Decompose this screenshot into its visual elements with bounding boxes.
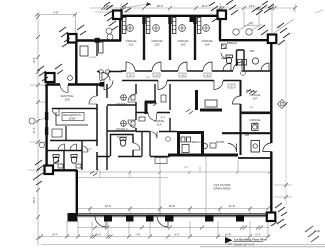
svg-text:RM: RM <box>250 49 255 53</box>
NE round table <box>252 58 258 64</box>
mid column on NW wall <box>95 38 100 43</box>
patient toilet room walls <box>110 134 133 156</box>
svg-text:5'-0": 5'-0" <box>146 77 151 79</box>
east room fixture box <box>252 124 259 131</box>
dimension line bottom inner short <box>78 227 270 229</box>
south hall wall y156 <box>97 156 170 158</box>
exam fan circles <box>121 95 127 101</box>
NE door arc left <box>223 63 231 71</box>
mech room walls thick <box>177 131 204 134</box>
svg-text:1'-6 1/2": 1'-6 1/2" <box>89 57 97 59</box>
column SE corner <box>267 213 276 222</box>
wing east wall x97 <box>96 84 98 170</box>
reception desk <box>56 112 88 125</box>
sheet line bottom long <box>41 244 325 246</box>
waiting room south wall <box>52 108 97 110</box>
storefront piers <box>68 213 245 222</box>
svg-text:BREAK: BREAK <box>227 41 237 45</box>
ceiling symbol office4 <box>203 25 210 32</box>
ceiling symbol office3 <box>179 25 186 32</box>
patient toilet door arc <box>133 143 140 150</box>
svg-text:24'-6": 24'-6" <box>107 4 114 8</box>
door tag east <box>228 84 235 88</box>
sheet line bottom second <box>200 246 325 248</box>
extension lines bottom wall to dim <box>67 221 268 236</box>
dimension line top-left <box>37 14 76 16</box>
svg-text:MECH: MECH <box>192 140 201 144</box>
restroom divider x64 <box>63 151 65 171</box>
svg-text:9'-8": 9'-8" <box>53 11 58 15</box>
svg-text:101: 101 <box>128 42 133 46</box>
waiting south door arc <box>52 109 59 116</box>
door tag ovals corridor <box>98 70 103 73</box>
door arc south gap <box>228 144 237 153</box>
leader from NW column <box>120 4 147 9</box>
svg-text:104: 104 <box>204 42 209 46</box>
office door arcs <box>126 62 135 71</box>
tick marks top dim <box>35 6 297 17</box>
svg-text:8'-0": 8'-0" <box>161 117 166 119</box>
west wall window frames <box>45 112 48 135</box>
svg-text:1'-6": 1'-6" <box>248 22 253 26</box>
wing entry door arc <box>60 85 68 93</box>
extension line x295 end <box>294 4 296 12</box>
toilet west 1 <box>53 157 58 164</box>
faint mark top right corner <box>315 10 323 13</box>
toilet west 2 <box>71 157 76 164</box>
reception inner wall x66 <box>65 126 67 140</box>
left horizontal extensions <box>28 85 46 170</box>
svg-text:10'-8": 10'-8" <box>225 233 232 237</box>
hatch marks column SE <box>271 203 287 228</box>
hall walls x142 x150 <box>142 132 150 156</box>
door tag office1 <box>127 73 134 77</box>
dimension line mid y172 <box>78 171 270 173</box>
open area pilaster texture <box>90 171 97 176</box>
NW room closet wall x97 <box>96 41 98 56</box>
svg-text:103: 103 <box>180 42 185 46</box>
NE washer dryer <box>238 60 242 66</box>
exterior wall top office row <box>121 15 221 17</box>
restroom north wall y150 <box>46 150 82 152</box>
office desk below reception <box>52 129 62 137</box>
exterior wall west <box>45 84 47 167</box>
corridor x158-170 lower arcs <box>150 132 157 139</box>
exterior wall west wing bottom <box>46 169 77 171</box>
corridor door arcs <box>104 81 113 90</box>
center wall x195 thick <box>195 90 198 110</box>
exterior wall step x220 <box>219 15 221 40</box>
exam sinks <box>131 95 135 100</box>
title triangle <box>225 237 233 244</box>
NW room door arc <box>102 73 110 81</box>
column SW wing corner <box>45 166 54 175</box>
office south wall segments y71 <box>121 70 272 72</box>
door tag office2 <box>153 73 160 77</box>
hatch marks column west step <box>59 25 86 47</box>
reception wall y140 <box>50 140 97 142</box>
dimension line bottom <box>41 236 270 238</box>
NE door arc closet <box>221 53 227 59</box>
extension line x220 <box>219 3 221 10</box>
exterior wall x76 upper <box>75 43 77 85</box>
exterior wall right <box>270 40 272 215</box>
tick marks left dim <box>36 15 40 240</box>
patient toilet fixture <box>120 140 125 146</box>
svg-text:100: 100 <box>64 97 69 101</box>
thick wall center L <box>145 101 156 104</box>
svg-text:9'-4": 9'-4" <box>250 107 255 109</box>
dimension line left vertical <box>37 14 39 246</box>
door tag office3 <box>179 73 186 77</box>
restroom door arcs <box>58 144 65 151</box>
NE block partition x244 <box>237 50 245 71</box>
keynote circle left margin <box>29 118 35 124</box>
leader from NE column <box>274 19 294 33</box>
svg-text:18'-0": 18'-0" <box>157 4 164 8</box>
svg-text:EXAM 1: EXAM 1 <box>116 102 127 106</box>
extension line x122 <box>120 3 122 15</box>
east door arcs <box>233 96 241 104</box>
svg-text:OPEN AREA: OPEN AREA <box>213 186 230 190</box>
exterior door arc bottom 2 <box>157 216 168 227</box>
dim text left (rotated) <box>32 57 36 64</box>
NW closet cabinet <box>99 42 104 53</box>
svg-text:102: 102 <box>154 42 159 46</box>
svg-text:12'-6": 12'-6" <box>105 204 112 208</box>
NE closet <box>222 44 227 49</box>
keynote circles NW <box>106 28 112 34</box>
west hall door arcs <box>89 96 97 104</box>
center room desks <box>139 117 145 121</box>
extension line x75 <box>75 14 77 33</box>
svg-text:100A: 100A <box>68 116 75 120</box>
svg-text:108: 108 <box>252 121 257 125</box>
dimension line inner south band <box>78 177 168 179</box>
svg-text:14'-2": 14'-2" <box>249 4 256 8</box>
column west step <box>68 34 77 43</box>
door arc right wall <box>263 143 272 152</box>
inner corner column blob <box>100 82 105 87</box>
pilasters on top wall <box>142 17 145 24</box>
right horizontal extensions <box>274 185 292 197</box>
exterior wall west wing top <box>46 83 104 85</box>
pilaster top wall x190 <box>190 16 195 22</box>
hatch marks column top step <box>209 0 238 22</box>
NW tele room equipment <box>80 46 88 56</box>
tick marks bottom dim <box>39 235 270 239</box>
svg-text:A-101: A-101 <box>314 230 321 233</box>
center divider y112 <box>136 112 170 114</box>
svg-text:STOR: STOR <box>216 140 225 144</box>
leader keynote circles <box>239 22 262 30</box>
hatch marks above NE column <box>252 1 274 15</box>
exam block wall x136 <box>135 84 137 131</box>
south label box <box>155 158 167 164</box>
extension stubs open area <box>90 156 250 214</box>
column west wing corner <box>46 73 55 82</box>
right margin marks <box>305 226 319 242</box>
exterior door arc bottom 1 <box>95 216 106 227</box>
svg-text:7'-6": 7'-6" <box>135 233 140 237</box>
office partition 1 <box>143 17 145 60</box>
exterior wall step x120 NW <box>119 15 121 41</box>
extension line x244 <box>244 11 259 26</box>
corridor south wall y80 <box>97 72 241 81</box>
south room sink <box>203 144 208 149</box>
hatch marks column SW wing <box>33 160 59 185</box>
hatch marks column NW <box>104 2 131 30</box>
svg-text:11'-8": 11'-8" <box>229 204 235 208</box>
hatch marks column NE <box>258 23 290 45</box>
shower east room <box>251 141 260 153</box>
svg-text:36'-8": 36'-8" <box>169 204 176 208</box>
ceiling symbol office2 <box>153 25 160 32</box>
svg-text:TOILET: TOILET <box>117 135 128 139</box>
column NW step <box>113 11 122 20</box>
svg-text:6'-0": 6'-0" <box>255 233 260 237</box>
column NE corner <box>268 35 277 44</box>
svg-text:8'-4": 8'-4" <box>52 233 57 237</box>
svg-text:107: 107 <box>252 96 257 100</box>
svg-text:18'-2": 18'-2" <box>32 197 36 204</box>
svg-text:10'-0": 10'-0" <box>95 233 102 237</box>
svg-text:1/8": 1/8" <box>228 243 232 246</box>
office partition 3 <box>194 17 196 60</box>
exterior wall NW top y40 <box>68 39 121 41</box>
exterior wall bottom storefront <box>76 214 272 216</box>
svg-text:1st Building Floor Plan: 1st Building Floor Plan <box>234 237 267 241</box>
svg-text:21'-6": 21'-6" <box>32 127 36 134</box>
center divider y131 x136-177 <box>136 131 177 133</box>
exterior wall NE top <box>219 39 272 41</box>
exam door arcs <box>128 94 136 102</box>
ceiling symbol office1 <box>127 25 134 32</box>
dimension line top second <box>95 11 130 13</box>
keynote circles top <box>233 29 239 35</box>
center wall y110 thick <box>200 109 222 112</box>
NE block partition x236 <box>236 50 238 66</box>
office partition 2 <box>169 17 171 60</box>
door tag office4 <box>204 73 211 77</box>
dimension line top <box>90 7 295 9</box>
tick marks right dim <box>284 102 288 199</box>
east divider y133 thick <box>222 132 272 134</box>
center hall wall x170 <box>169 84 171 131</box>
diamond marker right <box>278 100 287 109</box>
east room hatch scribble <box>246 89 257 95</box>
column top step x220 <box>218 11 227 20</box>
interior dimension line open area <box>78 208 268 210</box>
svg-text:12'-4": 12'-4" <box>32 57 36 64</box>
restroom sinks <box>58 164 63 168</box>
extension line x259 <box>258 8 260 25</box>
center cabinets <box>205 100 217 107</box>
center door arc y112 <box>148 113 157 121</box>
west corridor wall x107 <box>106 84 108 170</box>
svg-text:115: 115 <box>157 122 162 126</box>
center wall x155 <box>154 84 156 101</box>
hall wall x82 <box>81 140 83 170</box>
extension line x272 <box>271 4 273 33</box>
svg-text:EXAM 2: EXAM 2 <box>116 127 127 131</box>
south center thick wall y155 <box>168 154 238 157</box>
svg-text:16'-4": 16'-4" <box>202 4 209 8</box>
exam room divider y131 <box>107 130 136 132</box>
leader left keynote <box>35 118 46 121</box>
NE restroom toilet <box>226 57 231 64</box>
dimension line right vertical <box>285 42 287 205</box>
exam room divider y105 <box>107 104 136 106</box>
svg-text:9'-2": 9'-2" <box>174 233 179 237</box>
wall texture scribbles center <box>150 101 193 114</box>
east divider y112.5 thick <box>240 112 272 115</box>
NE door arc right <box>261 63 269 71</box>
svg-text:4'-6": 4'-6" <box>88 149 93 151</box>
office cabinets <box>123 18 126 34</box>
mech equipment <box>181 137 185 142</box>
svg-text:SCALE: 1/8" = 1'-0": SCALE: 1/8" = 1'-0" <box>234 243 255 246</box>
tick marks interior dim <box>88 207 270 211</box>
east south room wall y158 <box>238 157 272 159</box>
door tag circle NW <box>68 76 73 81</box>
hatch marks column west wing <box>37 64 63 86</box>
keynote circle center <box>166 137 171 142</box>
east wall x240 <box>240 80 242 155</box>
svg-text:7'-2": 7'-2" <box>184 167 189 169</box>
exterior wall x77 lower <box>76 170 78 215</box>
